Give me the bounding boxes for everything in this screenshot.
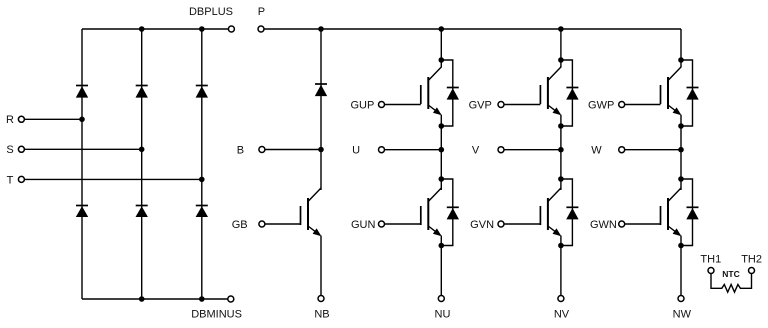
wire P rail <box>264 28 681 30</box>
junction node S <box>139 147 145 153</box>
svg-text:NB: NB <box>314 308 329 320</box>
junction bottom rail leg3 <box>199 296 205 302</box>
junction node R <box>79 117 85 123</box>
wire GVP gate lead <box>504 104 540 106</box>
wire GWN gate lead <box>625 223 661 225</box>
svg-text:GVN: GVN <box>470 219 494 231</box>
junction node B <box>318 147 324 153</box>
wire W leg collector drop <box>680 29 682 68</box>
terminal V <box>498 147 504 153</box>
IGBT GWP body bar <box>667 77 669 109</box>
IGBT GUN body bar <box>427 198 429 230</box>
freewheel diode U upper <box>447 87 459 89</box>
wire rectifier bottom rail <box>82 298 228 300</box>
IGBT GUP emitter arrow <box>433 107 442 115</box>
IGBT GWP collector lead <box>668 67 681 81</box>
terminal U <box>379 147 385 153</box>
IGBT GVN body bar <box>547 198 549 230</box>
wire U lower emitter down <box>440 236 442 296</box>
junction node W <box>678 147 684 153</box>
terminal GWN <box>619 221 625 227</box>
junction top rail leg3 <box>199 26 205 32</box>
IGBT GB collector lead <box>308 188 321 202</box>
IGBT GVP gate bar <box>539 85 541 104</box>
junction V lower diode return <box>558 243 564 249</box>
terminal NW <box>678 296 684 302</box>
wire GUN gate lead <box>385 223 421 225</box>
IGBT GUN emitter lead <box>428 226 440 235</box>
IGBT GVP emitter arrow <box>553 107 562 115</box>
terminal TH2 <box>749 268 755 274</box>
IGBT GWN gate bar <box>660 206 662 225</box>
svg-text:NW: NW <box>673 308 692 320</box>
IGBT GUN collector lead <box>428 188 441 202</box>
IGBT GWN body bar <box>667 198 669 230</box>
rectifier diode upper leg2 <box>136 85 148 87</box>
terminal GVP <box>498 102 504 108</box>
IGBT GUN emitter arrow <box>433 228 442 236</box>
wire GVN gate lead <box>504 223 540 225</box>
svg-text:P: P <box>258 6 265 18</box>
freewheel diode V lower <box>566 206 578 208</box>
svg-text:W: W <box>591 145 602 157</box>
wire brake leg middle <box>320 150 322 191</box>
IGBT GUN gate bar <box>420 206 422 225</box>
wire V leg collector drop <box>560 29 562 68</box>
svg-text:B: B <box>237 144 244 156</box>
IGBT GVN emitter arrow <box>553 228 562 236</box>
IGBT GB gate bar <box>300 206 302 225</box>
IGBT GB body bar <box>307 198 309 230</box>
terminal NU <box>438 296 444 302</box>
freewheel diode U lower <box>447 206 459 208</box>
terminal B <box>259 147 265 153</box>
wire V lower diode branch <box>561 179 573 246</box>
wire GWP gate lead <box>625 104 661 106</box>
terminal R <box>18 116 24 122</box>
terminal GUP <box>379 102 385 108</box>
wire brake leg upper <box>320 29 322 150</box>
terminal DBPLUS <box>228 26 234 32</box>
terminal GB <box>259 221 265 227</box>
rectifier diode lower leg3 <box>196 205 208 207</box>
junction V upper split <box>558 57 564 63</box>
IGBT GWN emitter arrow <box>673 228 682 236</box>
wire GUP gate lead <box>385 104 421 106</box>
IGBT GUP collector lead <box>428 67 441 81</box>
IGBT GVN collector lead <box>548 188 561 202</box>
svg-text:GWP: GWP <box>588 99 614 111</box>
IGBT GB emitter lead <box>308 226 320 235</box>
wire W upper diode branch <box>681 60 693 126</box>
terminal TH1 <box>708 268 714 274</box>
IGBT GVP emitter lead <box>548 105 560 114</box>
wire V upper diode branch <box>561 60 573 126</box>
IGBT GVP body bar <box>547 77 549 109</box>
svg-text:GB: GB <box>232 219 248 231</box>
junction node U <box>439 147 445 153</box>
wire W lower diode branch <box>681 179 693 246</box>
IGBT GVP collector lead <box>548 67 561 81</box>
wire input T <box>25 178 202 180</box>
freewheel diode W upper <box>687 87 699 89</box>
junction U lower diode return <box>439 243 445 249</box>
wire V emitter to node <box>560 115 562 190</box>
IGBT GUP emitter lead <box>428 105 440 114</box>
junction U upper split <box>439 57 445 63</box>
svg-text:TH2: TH2 <box>741 253 762 265</box>
rectifier diode lower leg2 <box>136 205 148 207</box>
wire V lower emitter down <box>560 236 562 296</box>
svg-text:DBMINUS: DBMINUS <box>191 308 242 320</box>
svg-text:GWN: GWN <box>590 219 617 231</box>
svg-text:U: U <box>352 145 360 157</box>
svg-text:TH1: TH1 <box>700 253 721 265</box>
junction W upper split <box>678 57 684 63</box>
wire rectifier top rail <box>82 28 228 30</box>
wire terminal W lead <box>625 149 681 151</box>
junction V upper diode return <box>558 123 564 129</box>
IGBT GUP body bar <box>427 77 429 109</box>
wire rectifier leg 3 <box>201 29 203 299</box>
junction P rail U leg <box>439 26 445 32</box>
wire GB gate lead <box>265 223 300 225</box>
wire U lower diode branch <box>441 179 453 246</box>
IGBT GWP emitter arrow <box>673 107 682 115</box>
svg-text:V: V <box>472 145 480 157</box>
svg-text:GUP: GUP <box>350 99 374 111</box>
terminal GVN <box>498 221 504 227</box>
junction top rail leg2 <box>139 26 145 32</box>
terminal GWP <box>619 102 625 108</box>
terminal T <box>18 176 24 182</box>
IGBT GVN gate bar <box>539 206 541 225</box>
wire W lower emitter down <box>680 236 682 296</box>
terminal P <box>258 26 264 32</box>
rectifier diode upper leg3 <box>196 85 208 87</box>
svg-text:T: T <box>7 174 14 186</box>
junction W lower diode return <box>678 243 684 249</box>
junction W lower split <box>678 176 684 182</box>
terminal GUN <box>379 221 385 227</box>
svg-text:NTC: NTC <box>722 269 739 279</box>
freewheel diode V upper <box>566 87 578 89</box>
wire U upper diode branch <box>441 60 453 126</box>
IGBT GWN emitter lead <box>668 226 680 235</box>
junction P rail V leg <box>558 26 564 32</box>
brake diode <box>315 83 327 85</box>
wire terminal V lead <box>504 149 561 151</box>
IGBT GVN emitter lead <box>548 226 560 235</box>
wire U leg collector drop <box>440 29 442 68</box>
junction U lower split <box>439 176 445 182</box>
freewheel diode W lower <box>687 206 699 208</box>
IGBT GUP gate bar <box>420 85 422 104</box>
svg-text:NV: NV <box>554 308 570 320</box>
IGBT GWP gate bar <box>660 85 662 104</box>
wire U emitter to node <box>440 115 442 190</box>
junction V lower split <box>558 176 564 182</box>
junction W upper diode return <box>678 123 684 129</box>
wire input R <box>25 118 82 120</box>
svg-text:GVP: GVP <box>469 99 492 111</box>
junction P rail brake leg <box>318 26 324 32</box>
svg-text:NU: NU <box>435 308 451 320</box>
IGBT GWP emitter lead <box>668 105 680 114</box>
terminal S <box>18 146 24 152</box>
junction bottom rail leg2 <box>139 296 145 302</box>
IGBT GWN collector lead <box>668 188 681 202</box>
wire input S <box>25 148 142 150</box>
terminal NV <box>558 296 564 302</box>
junction node T <box>199 177 205 183</box>
svg-text:DBPLUS: DBPLUS <box>189 6 233 18</box>
wire terminal B lead <box>265 149 321 151</box>
terminal DBMINUS <box>228 296 234 302</box>
svg-text:GUN: GUN <box>351 219 376 231</box>
terminal W <box>619 147 625 153</box>
wire rectifier leg 2 <box>141 29 143 299</box>
IGBT GB emitter arrow <box>313 228 322 236</box>
wire W emitter to node <box>680 115 682 190</box>
svg-text:S: S <box>6 144 13 156</box>
rectifier diode upper leg1 <box>76 85 88 87</box>
svg-text:R: R <box>6 114 14 126</box>
junction node V <box>558 147 564 153</box>
wire brake emitter down <box>320 236 322 296</box>
wire rectifier leg 1 <box>81 29 83 299</box>
junction U upper diode return <box>439 123 445 129</box>
NTC resistor body <box>711 274 752 292</box>
rectifier diode lower leg1 <box>76 205 88 207</box>
wire terminal U lead <box>385 149 442 151</box>
terminal NB <box>318 296 324 302</box>
